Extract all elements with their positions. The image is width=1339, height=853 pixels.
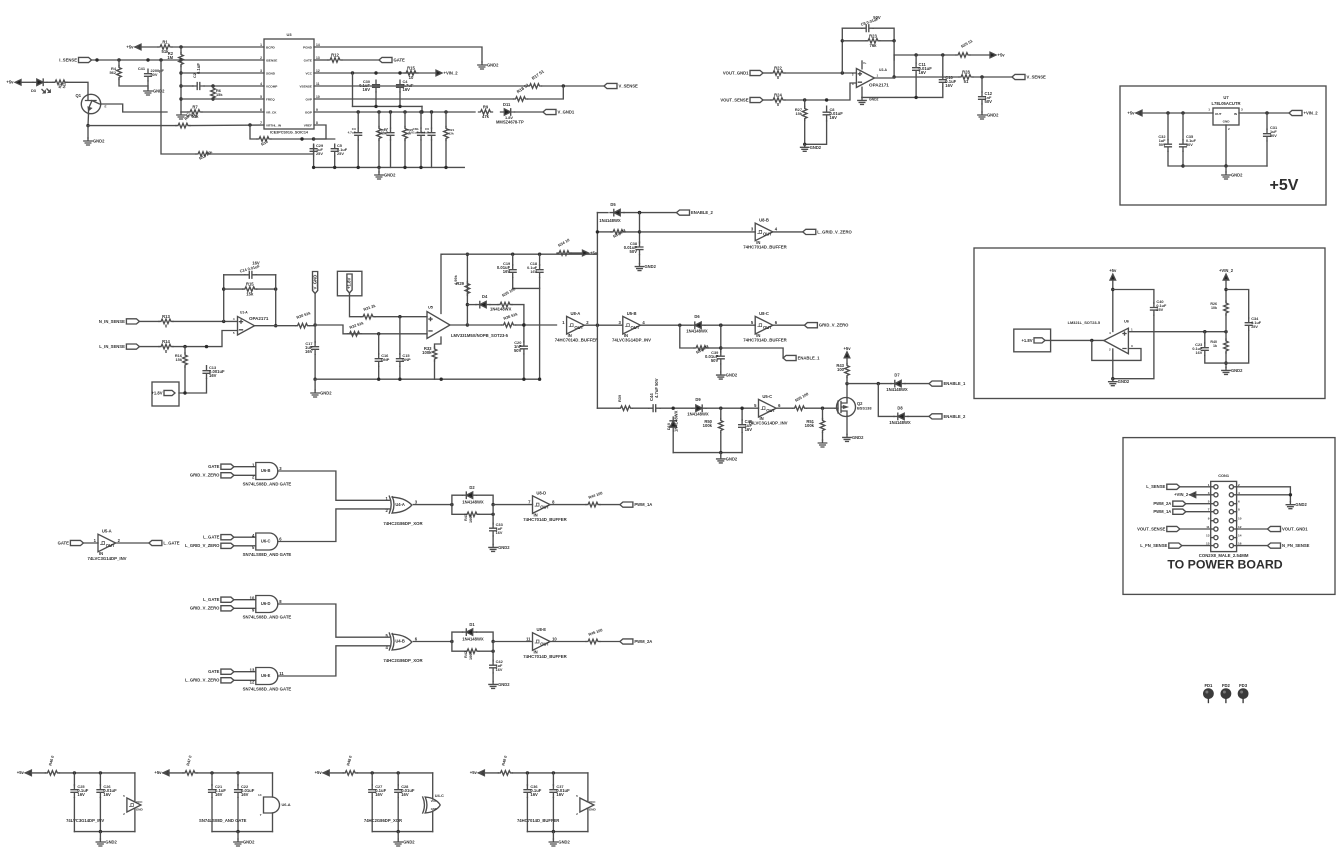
junction c15 rail [398,378,401,381]
junction dec4 rail [552,830,555,833]
ground u2 [858,97,866,104]
IC U3 ICE3PCS01G [264,39,314,129]
svg-text:1N4148WX: 1N4148WX [462,499,484,504]
svg-text:R47 0: R47 0 [185,755,193,766]
junction c16 rail [377,378,380,381]
svg-text:16V: 16V [530,270,537,274]
svg-text:3: 3 [279,466,282,471]
connector CON1 pin 1 [1214,485,1218,489]
svg-text:100k: 100k [703,423,713,428]
svg-text:U6-D: U6-D [261,601,271,606]
wire u1 fb up [223,275,225,322]
svg-text:GRID_V_ZERO: GRID_V_ZERO [819,323,849,328]
net tag L_GATE u6d [221,597,234,602]
svg-text:U4-A: U4-A [395,502,405,507]
svg-text:GND2: GND2 [1231,173,1243,178]
net tag GATE u6e [221,669,234,674]
wire r50 link [720,408,722,419]
svg-text:GATE: GATE [304,58,312,62]
wire u8b in [640,231,756,233]
wire dec1 vcc [134,773,135,802]
wire d6 bypass down a [680,325,694,348]
svg-text:U1-A: U1-A [240,311,248,315]
wire R4 top [118,60,120,66]
junction d1 l [450,640,453,643]
wire u6e in1 [234,671,256,673]
svg-text:16V: 16V [375,792,383,797]
wire dec4 c1 bot [526,798,528,832]
junction d10 top [672,407,675,410]
capacitor C33 1uF [490,523,497,536]
wire pin3 [181,72,264,74]
resistor R50 100k [719,419,724,433]
wire d5 a [597,212,608,214]
svg-text:51k: 51k [192,114,200,119]
resistor R30 51k [296,323,310,328]
power +5v q2 [844,352,850,358]
junction ISENSE Q1 [95,58,98,61]
wire dec4 bottom rail [527,831,588,833]
wire D11 to tag [515,111,544,113]
svg-text:15k: 15k [216,92,223,97]
net tag VOUT_SENSE [750,97,763,102]
ground divider [1222,367,1230,374]
svg-text:0: 0 [165,324,168,329]
svg-text:OUT: OUT [540,641,549,646]
wire c10 drop [942,55,944,75]
svg-text:GND2: GND2 [105,840,117,845]
power +5V dec4 [478,770,484,776]
svg-text:+5v: +5v [1127,110,1135,115]
wire bb a [597,407,618,409]
svg-text:R41: R41 [464,514,468,521]
junction pin5 R6 [211,97,214,100]
svg-text:4: 4 [775,227,778,232]
wire bottom rail mid [315,378,539,380]
wire r40 bot [1225,353,1227,368]
svg-text:PWM_1A: PWM_1A [1153,509,1171,514]
wire r41 down b [479,513,493,515]
wire u8c out [773,324,805,326]
wire dec1 c1 drop [73,773,75,786]
capacitor C42 1uF [490,660,497,673]
svg-text:U4-C: U4-C [435,793,444,798]
wire bottom rail gnd drop [314,379,316,390]
wire u5 out right a [467,324,501,326]
connector CON1 pin 7 [1214,510,1218,514]
svg-text:OUT: OUT [574,325,583,330]
junction bop C8b [419,110,422,113]
wire dec4 top a [478,772,498,774]
wire c39 link [720,325,722,352]
wire c18 bot [539,278,541,289]
junction div mid [1224,330,1227,333]
svg-text:U6-E: U6-E [261,673,271,678]
svg-text:1: 1 [877,74,879,78]
svg-text:50V: 50V [873,15,881,20]
wire u2 vcc [861,61,863,69]
capacitor C35 0.1uF [1180,140,1187,152]
wire c20 bot [523,354,525,379]
wire c34 top [1226,290,1249,319]
svg-text:OUT: OUT [631,325,640,330]
capacitor C29 1uF [310,144,317,156]
resistor R22 0 [771,71,785,76]
resistor R40 1k [1224,339,1229,353]
svg-text:SN74LS08D_AND GATE: SN74LS08D_AND GATE [243,482,292,487]
resistor R45 100 [586,639,600,644]
power +VIN_2 arrow [436,70,442,76]
svg-text:74HC7014D_BUFFER: 74HC7014D_BUFFER [523,517,567,522]
ground dec1 [96,839,104,846]
capacitor C32 1uF [1165,140,1172,152]
svg-text:V_GND1: V_GND1 [558,109,575,114]
junction dec2 c1 [210,771,213,774]
wire pin11 b [542,85,605,87]
gate power symbol U5 [127,798,141,812]
wire d4 c [512,305,524,325]
svg-text:11: 11 [279,671,284,676]
buffer U8-C [755,316,773,334]
wire c15 bot [399,367,401,380]
op-amp U2-A OPA2171 [856,69,874,88]
net tag +VIN_2 reg [1289,110,1302,115]
junction rail pin3 [179,71,182,74]
svg-text:GND2: GND2 [498,682,510,687]
resistor R55 100 [793,406,807,411]
AND gate U6-B [256,463,278,480]
junction c23 top [1203,330,1206,333]
ground c38 [635,264,643,271]
net tag ENABLE_2 d8 [929,414,942,419]
wire D3 to R5 [47,81,53,83]
inverter U5-A [98,534,116,552]
svg-text:L_GRID_V_ZERO: L_GRID_V_ZERO [185,678,220,683]
svg-text:2: 2 [118,538,121,543]
svg-text:25V: 25V [1156,308,1163,312]
svg-text:V+: V+ [863,61,867,65]
junction pin1/R2 [179,45,182,48]
resistor R25 51 [956,53,970,58]
resistor R18 51 [514,97,528,102]
junction c39 mid [719,346,722,349]
svg-text:6: 6 [279,536,282,541]
svg-text:562: 562 [62,82,67,88]
svg-text:E: E [105,105,107,109]
junction gnd rail a [312,166,315,169]
svg-text:D8: D8 [897,406,903,411]
junction c39 top [719,324,722,327]
wire pin7 to R10 [250,125,257,139]
junction q2 gate [821,407,824,410]
ground dec4 [549,839,557,846]
wire Q1 emitter [87,114,90,126]
svg-text:+1.8V: +1.8V [151,390,162,395]
wire vcc rail down [352,73,354,106]
svg-text:GND2: GND2 [243,840,255,845]
svg-text:R25 51: R25 51 [960,38,974,49]
svg-text:U6-C: U6-C [261,539,271,544]
junction fb r left [841,39,844,42]
junction vcc b [374,71,377,74]
svg-text:16V: 16V [401,792,409,797]
svg-text:8: 8 [1238,508,1240,512]
svg-text:6: 6 [775,320,778,325]
svg-text:VCC: VCC [305,71,312,75]
svg-text:R31 2k: R31 2k [363,303,377,312]
wire bb c [660,407,692,409]
svg-text:U7: U7 [1223,95,1229,100]
junction c32 top [1166,111,1169,114]
junction c11 top [914,53,917,56]
junction vcc c [398,71,401,74]
svg-text:R11 15k: R11 15k [198,149,214,161]
wire c34 bot [1226,331,1249,364]
wire dec2 c1 bot [211,798,213,832]
svg-text:SN74LS08D_AND GATE: SN74LS08D_AND GATE [243,615,292,620]
svg-text:3: 3 [618,320,621,325]
wire R14 right [173,331,238,347]
svg-text:GND2: GND2 [852,435,864,440]
wire pin12 [314,72,436,74]
svg-text:GND2: GND2 [645,264,657,269]
wire con p15 [1182,545,1211,547]
wire u1 fb down [275,275,277,326]
wire R24 right [785,83,856,100]
svg-text:R36 51k: R36 51k [503,311,519,321]
svg-text:4.7uF 50V: 4.7uF 50V [654,378,659,398]
wire C8 bottom [805,121,827,144]
wire c11 bot [915,75,917,97]
wire C6 top [431,112,433,128]
junction bb rail r50 [719,451,722,454]
svg-text:GND: GND [589,808,597,812]
svg-text:GND2: GND2 [403,840,415,845]
svg-text:GND2: GND2 [1118,379,1130,384]
ground r51 [818,440,826,447]
capacitor C21 [209,785,216,798]
wire C13 bottom [185,379,207,394]
net tag L_FN_SENSE con [1169,543,1182,548]
net tag +1.8V ref2 [347,274,352,293]
svg-text:1: 1 [94,538,97,543]
svg-text:ENABLE_1: ENABLE_1 [944,381,967,386]
svg-text:13: 13 [250,667,255,672]
svg-text:10: 10 [250,595,255,600]
svg-text:ENABLE_2: ENABLE_2 [944,414,967,419]
svg-text:PWM_2A: PWM_2A [634,639,652,644]
svg-text:VSENSE: VSENSE [299,84,312,88]
svg-text:GND2: GND2 [498,545,510,550]
wire c33 bot [492,536,494,544]
capacitor C3 [355,128,362,140]
ground c33 [489,544,497,551]
svg-text:U6-B: U6-B [261,468,271,473]
wire con p16 [1237,545,1268,547]
resistor R6 15k [211,86,216,100]
wire dec4 c1 drop [526,773,528,786]
junction c35 top [1181,111,1184,114]
resistor R7 51k [188,110,202,115]
svg-text:3: 3 [1241,108,1243,112]
svg-text:1N4148WX: 1N4148WX [462,636,484,641]
svg-text:D6: D6 [694,314,700,319]
ground dec3 [394,839,402,846]
wire R22 to opamp [785,72,856,74]
power +VIN_2 con [1190,492,1196,498]
wire r25 to arrow [970,54,990,56]
wire dec2 top a [163,772,183,774]
AND gate U6-D [256,596,278,613]
svg-text:10: 10 [1238,517,1242,521]
svg-text:R7: R7 [192,105,198,110]
wire c31 bot [1266,141,1268,166]
wire pin5 [181,98,264,100]
svg-text:16V: 16V [252,261,260,266]
wire dec3 c1 bot [371,798,373,832]
svg-text:5: 5 [754,403,757,408]
svg-text:R45 100: R45 100 [588,627,604,637]
LED arrows D3 [42,89,50,93]
wire reg gnd rail [1183,165,1267,167]
junction dec3 rail [397,830,400,833]
junction rail u8a [596,324,599,327]
junction u6 gnd [1111,377,1114,380]
svg-text:IN: IN [1234,112,1238,116]
wire c17 top [314,325,316,343]
svg-text:0.01uF: 0.01uF [409,131,419,135]
net tag PWM_1A out [620,502,633,507]
wire pin14 [314,47,482,62]
svg-text:VOUT_SENSE: VOUT_SENSE [1137,526,1165,531]
svg-text:16V: 16V [77,792,85,797]
net tag N_IN_SENSE [126,319,139,324]
junction d1 r [491,640,494,643]
wire d8 drop [878,384,894,417]
junction u6 vcc [1111,288,1114,291]
power +5V right [990,52,996,58]
svg-text:2: 2 [1109,348,1111,352]
svg-text:OUT: OUT [540,504,549,509]
wire dec2 gnd drop [237,832,239,839]
svg-text:50V: 50V [1270,134,1277,138]
wire 1v8 to opamp [1045,339,1104,341]
svg-text:50V: 50V [151,72,158,77]
wire emitter to gnd [87,126,89,138]
wire R5 to Q1 base [67,82,88,94]
junction c13 top [205,345,208,348]
ground regulator [1222,172,1230,179]
svg-text:2: 2 [576,812,578,816]
wire r44 right [600,504,620,506]
diode D5 1N4148WX [614,209,620,215]
wire ISENSE line [92,59,265,61]
wire R21 top [445,112,447,127]
capacitor C18 0.1uF [536,265,543,278]
svg-text:PWM_2A: PWM_2A [1153,501,1171,506]
wire u8d out [550,504,586,506]
svg-text:R30 51k: R30 51k [296,310,312,320]
capacitor C34 0.1uF [1245,318,1252,331]
wire R1 to pin1 [172,46,264,48]
diode D3 LED [37,79,43,85]
junction pin7 down [248,123,251,126]
capacitor C9 0.01uF [862,25,874,32]
wire c45 top [741,408,743,420]
resistor R17 51 [528,84,542,89]
svg-text:L_GRID_V_ZERO: L_GRID_V_ZERO [817,229,852,234]
transistor Q2 BSS138 [837,398,856,417]
junction rail pin4 [179,84,182,87]
svg-text:76k: 76k [870,43,878,48]
svg-text:5: 5 [751,320,754,325]
junction bottom rail c17 [313,378,316,381]
svg-text:25V: 25V [337,151,344,156]
wire u5a out [116,542,149,544]
svg-text:VRTHL_IN: VRTHL_IN [266,123,282,127]
svg-text:16V: 16V [103,792,111,797]
buffer U8-D [533,496,551,514]
wire u6 gnd [1112,349,1114,379]
svg-text:25V: 25V [1251,325,1258,329]
net tag GRID_V_ZERO u6b [221,473,234,478]
svg-text:BSS138: BSS138 [857,406,872,411]
wire con p1 [1180,486,1211,488]
wire dec1 gndpin [134,809,135,832]
wire pin6 a [181,111,188,113]
svg-text:LM321L_SOT23-5: LM321L_SOT23-5 [1068,320,1101,325]
AND gate U6-C [256,533,278,550]
net tag L_GRID_V_ZERO u6c [221,543,234,548]
resistor R48 0 [343,771,357,776]
gate power symbol U4 [423,797,425,813]
wire c38 drop [639,232,641,243]
svg-text:R48 0: R48 0 [345,755,353,766]
capacitor C25 [71,785,78,798]
junction c20 top [522,323,525,326]
op-amp U5 comparator [427,312,450,339]
wire dec4 top b [512,772,588,774]
connector CON1 pin 14 [1229,536,1233,540]
svg-text:OUT: OUT [763,325,772,330]
svg-text:GND2: GND2 [1231,368,1243,373]
XOR gate U4-B [389,633,391,650]
resistor R49 0 [498,771,512,776]
capacitor C26 [97,785,104,798]
ground C41 [144,88,152,95]
wire u6d in1 [234,599,256,601]
resistor R44 100 [586,502,600,507]
junction vcc gnd c [420,110,423,113]
resistor R10 30k [257,137,271,142]
net tag V_SENSE2 [1012,74,1025,79]
svg-text:74HC2G86DP_XOR: 74HC2G86DP_XOR [383,521,423,526]
svg-text:D2: D2 [469,485,475,490]
svg-text:74HC7014D_BUFFER: 74HC7014D_BUFFER [555,338,599,343]
resistor R38 1M [694,346,708,351]
wire vout_gnd1 to R22 [763,72,771,74]
svg-text:2: 2 [123,812,125,816]
AND gate U6-E [256,668,278,685]
wire c35 bot [1182,151,1184,166]
junction vsense div [562,84,565,87]
ground bop rail [375,172,383,179]
wire con p5 [1186,503,1211,505]
resistor R31 2k [361,314,375,319]
wire pin9 [314,111,475,113]
svg-text:16V: 16V [556,792,564,797]
svg-text:+5v: +5v [843,346,851,351]
